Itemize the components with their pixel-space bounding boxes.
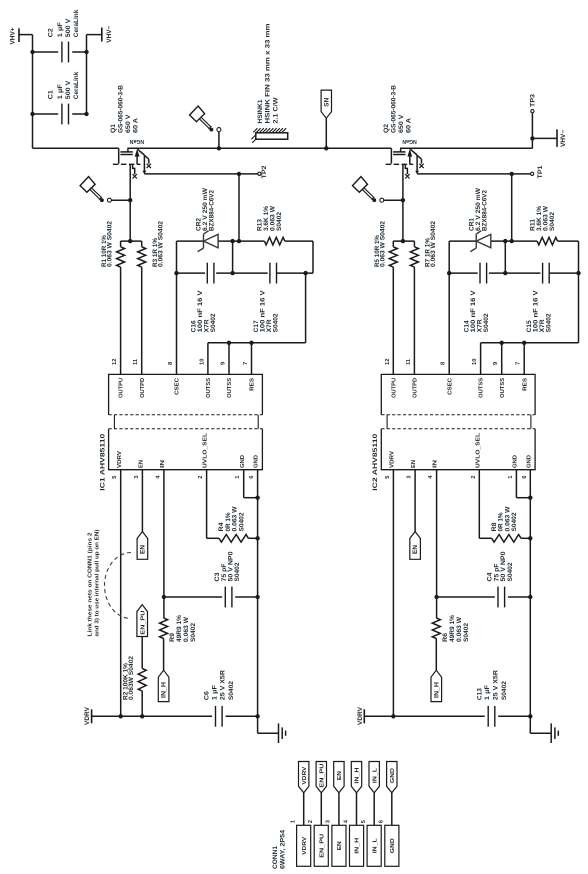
wire rail VHV+ to Q1 drain: [33, 147, 119, 149]
svg-text:IN_H: IN_H: [434, 682, 440, 698]
svg-text:50 V NP0: 50 V NP0: [501, 551, 507, 582]
svg-text:X7R: X7R: [205, 319, 211, 333]
svg-text:S0402: S0402: [502, 680, 508, 700]
capacitor C4: [488, 551, 514, 608]
svg-text:1 µF: 1 µF: [58, 22, 64, 37]
svg-text:CeraLink: CeraLink: [74, 71, 80, 99]
svg-text:CR2: CR2: [197, 217, 203, 231]
svg-text:S0402: S0402: [240, 512, 246, 532]
svg-text:C4: C4: [488, 572, 494, 582]
svg-text:0.063 W: 0.063 W: [543, 206, 549, 231]
svg-text:Q1: Q1: [111, 123, 117, 133]
svg-text:12: 12: [385, 359, 391, 365]
test point TP3: [531, 93, 537, 138]
svg-text:R11: R11: [530, 218, 536, 231]
test point TP2: [258, 165, 268, 179]
node junction C2 left: [30, 50, 34, 54]
wire VHV- bus left: [86, 35, 88, 114]
svg-text:7: 7: [516, 362, 522, 365]
svg-text:X7R: X7R: [267, 319, 273, 333]
svg-text:UVLO_SEL: UVLO_SEL: [475, 432, 481, 468]
svg-text:S0402: S0402: [229, 680, 235, 700]
svg-text:NGaN: NGaN: [129, 138, 144, 144]
svg-text:OUTSS: OUTSS: [500, 378, 506, 398]
svg-text:50 V NP0: 50 V NP0: [229, 551, 235, 582]
svg-text:VDRV: VDRV: [390, 451, 396, 468]
svg-text:0.063 W: 0.063 W: [457, 617, 463, 642]
wire Q1 source sense: [144, 173, 257, 175]
svg-text:650 V: 650 V: [126, 115, 132, 134]
svg-text:SN: SN: [324, 98, 330, 107]
svg-text:S0402: S0402: [484, 313, 490, 333]
svg-text:49R9 1%: 49R9 1%: [177, 614, 183, 642]
zener diode CR1: [469, 188, 491, 252]
svg-text:GS-065-060-3-B: GS-065-060-3-B: [391, 84, 397, 133]
svg-text:0.063 W S0402: 0.063 W S0402: [431, 220, 437, 267]
svg-text:CSEC: CSEC: [175, 377, 181, 395]
wire VHV+ stem: [19, 34, 33, 36]
capacitor C6: [205, 669, 236, 726]
svg-text:100 nF 16 V: 100 nF 16 V: [533, 290, 539, 332]
svg-text:2: 2: [471, 476, 477, 479]
svg-text:0.063 W: 0.063 W: [233, 506, 239, 531]
svg-text:EN_PU: EN_PU: [140, 611, 146, 635]
svg-text:6.2 V 250 mW: 6.2 V 250 mW: [203, 188, 209, 231]
svg-text:C3: C3: [215, 572, 221, 582]
wire C2 right: [72, 51, 86, 53]
svg-text:EN: EN: [413, 545, 419, 554]
svg-text:EN: EN: [411, 460, 417, 468]
svg-text:TP3: TP3: [531, 93, 537, 107]
svg-text:GND: GND: [526, 455, 532, 468]
node junction C1 left: [30, 112, 34, 116]
svg-text:60 A: 60 A: [134, 117, 140, 133]
svg-text:VHV−: VHV−: [560, 130, 567, 147]
svg-text:IN_H: IN_H: [162, 682, 168, 698]
svg-text:0.063 W: 0.063 W: [184, 617, 190, 642]
svg-text:RES: RES: [250, 378, 256, 391]
node junction probe rail: [217, 146, 221, 150]
svg-text:IN: IN: [160, 460, 166, 468]
svg-text:CR1: CR1: [469, 217, 475, 231]
svg-text:BZX884-C6V2: BZX884-C6V2: [210, 189, 216, 231]
svg-text:R6: R6: [443, 632, 449, 642]
svg-text:R8: R8: [492, 522, 498, 532]
svg-text:IN_L: IN_L: [372, 768, 378, 784]
resistor R1 and R3 gate network: [102, 220, 164, 374]
power flag VHV+: [9, 27, 19, 44]
svg-text:R9: R9: [170, 632, 176, 642]
power flag VDRV ch1: [84, 706, 92, 725]
svg-text:2.1 C/W: 2.1 C/W: [273, 97, 279, 123]
svg-text:HSINK1: HSINK1: [258, 99, 264, 124]
svg-text:S0402: S0402: [550, 211, 556, 231]
svg-text:11: 11: [406, 358, 412, 365]
power flag VHV- right: [557, 129, 567, 147]
svg-text:IC1 AHV85110: IC1 AHV85110: [99, 433, 106, 491]
power flag VHV- left: [102, 25, 113, 42]
power flag VDRV ch2: [357, 706, 365, 725]
svg-text:10: 10: [472, 359, 478, 365]
ground ch2: [530, 716, 558, 743]
svg-text:49R9 1%: 49R9 1%: [450, 614, 456, 642]
wire rail Q2 to VHV-: [400, 138, 532, 148]
net label IN_H ch2: [431, 670, 442, 701]
svg-text:75 pF: 75 pF: [495, 563, 501, 581]
svg-text:0.063 W S0402: 0.063 W S0402: [159, 220, 165, 267]
svg-text:CSEC: CSEC: [447, 377, 453, 395]
wires channel-1 logic side: [92, 470, 260, 719]
capacitor C2: [48, 9, 80, 62]
test point TP1: [531, 165, 545, 179]
svg-text:OUTSS: OUTSS: [206, 378, 212, 398]
svg-text:VHV+: VHV+: [9, 27, 16, 44]
wire Q1 gate: [129, 164, 131, 241]
svg-text:RES: RES: [522, 378, 528, 391]
svg-text:1 µF: 1 µF: [58, 84, 64, 99]
zener diode CR2: [197, 188, 219, 252]
node junction Q2 gate probe: [401, 198, 405, 202]
svg-text:CONN1: CONN1: [273, 845, 279, 869]
svg-text:CeraLink: CeraLink: [74, 9, 80, 37]
svg-text:UVLO_SEL: UVLO_SEL: [203, 432, 209, 468]
svg-text:OUTSS: OUTSS: [479, 378, 485, 398]
svg-text:IN: IN: [433, 460, 439, 468]
svg-text:0.063 W S0402: 0.063 W S0402: [380, 220, 386, 267]
svg-text:EN_PU: EN_PU: [319, 764, 325, 788]
svg-text:VDRV: VDRV: [302, 766, 308, 784]
wire C1 right: [72, 113, 86, 115]
svg-text:R13: R13: [258, 218, 264, 231]
svg-text:GND: GND: [513, 455, 519, 468]
svg-text:7: 7: [243, 362, 249, 365]
wires channel-1 clamp network: [174, 174, 313, 375]
wire EN_PU to R2: [141, 637, 143, 669]
svg-text:C6: C6: [205, 690, 211, 700]
node junction TP2 drop: [237, 172, 241, 176]
resistor R6: [443, 614, 470, 642]
probe P3 on Q2 gate: [353, 177, 403, 203]
connector CONN1: [273, 762, 399, 870]
svg-text:2: 2: [198, 476, 204, 479]
svg-text:S0402: S0402: [277, 211, 283, 231]
resistor R13 label: [258, 205, 284, 231]
svg-text:60 A: 60 A: [406, 117, 412, 133]
op-amp IC2 AHV85110 driver: [372, 358, 535, 491]
note link arc: [105, 553, 132, 619]
heatsink HSINK1: [251, 24, 287, 143]
svg-text:and 3) to use internal pull up: and 3) to use internal pull up on EN): [95, 529, 101, 636]
svg-text:3.6K 1%: 3.6K 1%: [537, 205, 543, 231]
svg-text:GS-065-060-3-B: GS-065-060-3-B: [119, 84, 125, 133]
svg-text:6.2 V 250 mW: 6.2 V 250 mW: [476, 188, 482, 231]
svg-text:25 V X5R: 25 V X5R: [221, 669, 227, 700]
svg-text:Link these nets on CONN1 (pins: Link these nets on CONN1 (pins 2: [87, 533, 93, 637]
svg-text:75 pF: 75 pF: [222, 563, 228, 581]
svg-text:0.063W S0402: 0.063W S0402: [129, 655, 135, 700]
svg-text:3.6K 1%: 3.6K 1%: [264, 205, 270, 231]
svg-text:0R 1%: 0R 1%: [499, 512, 505, 532]
resistor R5 and R7 gate network: [375, 220, 437, 374]
wire VHV- stem left: [87, 34, 102, 36]
svg-text:11: 11: [133, 358, 139, 365]
svg-text:1 µF: 1 µF: [485, 685, 491, 700]
svg-text:GND: GND: [390, 768, 396, 783]
resistor R9: [170, 614, 197, 642]
svg-text:100 nF 16 V: 100 nF 16 V: [471, 290, 477, 332]
capacitor C3: [215, 551, 241, 608]
svg-text:EN: EN: [141, 545, 147, 554]
capacitor C16: [192, 263, 218, 333]
svg-text:500 V: 500 V: [66, 81, 72, 100]
svg-text:OUTPD: OUTPD: [140, 378, 146, 398]
net label EN_PU: [137, 605, 148, 637]
svg-text:IN_H: IN_H: [355, 768, 361, 784]
svg-text:1 µF: 1 µF: [212, 685, 218, 700]
capacitor C1: [48, 71, 80, 124]
svg-text:TP2: TP2: [262, 165, 268, 179]
node junction SN rail: [324, 146, 328, 150]
svg-text:VDRV: VDRV: [117, 451, 123, 468]
svg-text:EN: EN: [337, 771, 343, 780]
node junction C1 right: [84, 112, 88, 116]
node junction Q1 gate probe: [128, 198, 132, 202]
resistor R4: [219, 506, 245, 531]
svg-text:OUTPD: OUTPD: [413, 378, 419, 398]
svg-text:C17: C17: [254, 320, 260, 333]
svg-text:C15: C15: [527, 320, 533, 333]
note text: [87, 529, 100, 636]
svg-text:VDRV: VDRV: [357, 706, 364, 725]
capacitor C17: [254, 263, 280, 333]
svg-text:10: 10: [199, 359, 205, 365]
svg-text:0R 1%: 0R 1%: [226, 512, 232, 532]
svg-text:IN_H: IN_H: [355, 838, 361, 854]
node junction TP1 drop: [510, 172, 514, 176]
wires channel-2 logic side: [364, 470, 532, 719]
resistor R11 label: [530, 205, 556, 231]
svg-text:2: 2: [308, 820, 314, 823]
svg-text:650 V: 650 V: [399, 115, 405, 134]
wire C1 left: [33, 113, 59, 115]
svg-text:IN_L: IN_L: [372, 838, 378, 854]
svg-text:500 V: 500 V: [66, 19, 72, 38]
resistor R2: [123, 655, 146, 716]
svg-text:VDRV: VDRV: [84, 706, 91, 725]
svg-text:S0402: S0402: [508, 562, 514, 582]
ground ch1: [258, 716, 286, 743]
wire VHV- stem right: [532, 137, 557, 139]
svg-text:Q2: Q2: [384, 123, 390, 133]
svg-text:OUTPU: OUTPU: [391, 378, 397, 398]
svg-text:OUTSS: OUTSS: [227, 378, 233, 398]
probe P1 on switch rail: [190, 106, 221, 148]
svg-text:BZX884-C6V2: BZX884-C6V2: [482, 189, 488, 231]
svg-text:S0402: S0402: [191, 622, 197, 642]
op-amp IC1 AHV85110 driver: [99, 358, 262, 491]
wire rail switch node: [127, 147, 391, 149]
svg-text:X7R: X7R: [540, 319, 546, 333]
svg-text:X7R: X7R: [477, 319, 483, 333]
svg-text:HSINK FIN 33 mm x 33 mm: HSINK FIN 33 mm x 33 mm: [266, 24, 272, 124]
capacitor C14: [464, 263, 490, 333]
svg-text:GND: GND: [240, 455, 246, 468]
svg-text:S0402: S0402: [235, 562, 241, 582]
svg-text:GND: GND: [254, 455, 260, 468]
svg-text:C14: C14: [464, 320, 470, 333]
svg-text:100 nF 16 V: 100 nF 16 V: [261, 290, 267, 332]
net label IN_H ch1: [158, 670, 169, 701]
net label EN ch1: [137, 532, 148, 560]
wire VHV+ bus: [32, 35, 34, 149]
svg-text:25 V X5R: 25 V X5R: [493, 669, 499, 700]
svg-text:R4: R4: [219, 522, 225, 532]
svg-text:6WAY, 2P54: 6WAY, 2P54: [281, 829, 287, 869]
svg-text:C2: C2: [48, 27, 54, 37]
wires channel-2 clamp network: [447, 174, 581, 375]
svg-text:C1: C1: [48, 89, 54, 99]
svg-text:S0402: S0402: [274, 313, 280, 333]
svg-text:VHV−: VHV−: [106, 25, 113, 42]
svg-text:NGaN: NGaN: [402, 138, 417, 144]
svg-text:C16: C16: [192, 320, 198, 333]
svg-text:0.063 W S0402: 0.063 W S0402: [108, 220, 114, 267]
transistor Q2: [384, 84, 424, 178]
svg-text:12: 12: [112, 359, 118, 365]
svg-text:S0402: S0402: [512, 512, 518, 532]
svg-text:OUTPU: OUTPU: [119, 378, 125, 398]
svg-text:IC2 AHV85110: IC2 AHV85110: [372, 433, 379, 491]
svg-text:C13: C13: [477, 687, 483, 700]
capacitor C13: [477, 669, 508, 726]
net label SN: [321, 90, 331, 148]
resistor R8: [492, 506, 518, 531]
svg-text:S0402: S0402: [464, 622, 470, 642]
wire Q2 gate: [402, 164, 404, 241]
wire C2 left: [33, 51, 59, 53]
node junction TP3: [530, 136, 534, 140]
svg-text:0.063 W: 0.063 W: [505, 506, 511, 531]
svg-text:EN: EN: [139, 460, 145, 468]
wire Q2 source sense: [417, 173, 530, 175]
probe P2 on Q1 gate: [80, 177, 130, 203]
node junction C2 right: [84, 50, 88, 54]
svg-text:EN: EN: [337, 841, 343, 850]
svg-text:100 nF 16 V: 100 nF 16 V: [198, 290, 204, 332]
svg-text:S0402: S0402: [211, 313, 217, 333]
svg-text:VDRV: VDRV: [302, 837, 308, 855]
svg-text:TP1: TP1: [538, 165, 544, 179]
svg-text:GND: GND: [390, 838, 396, 853]
svg-text:S0402: S0402: [546, 313, 552, 333]
svg-text:EN_PU: EN_PU: [319, 834, 325, 858]
transistor Q1: [111, 84, 151, 178]
capacitor C15: [527, 263, 553, 333]
svg-text:0.063 W: 0.063 W: [271, 206, 277, 231]
net label EN ch2: [410, 532, 421, 560]
